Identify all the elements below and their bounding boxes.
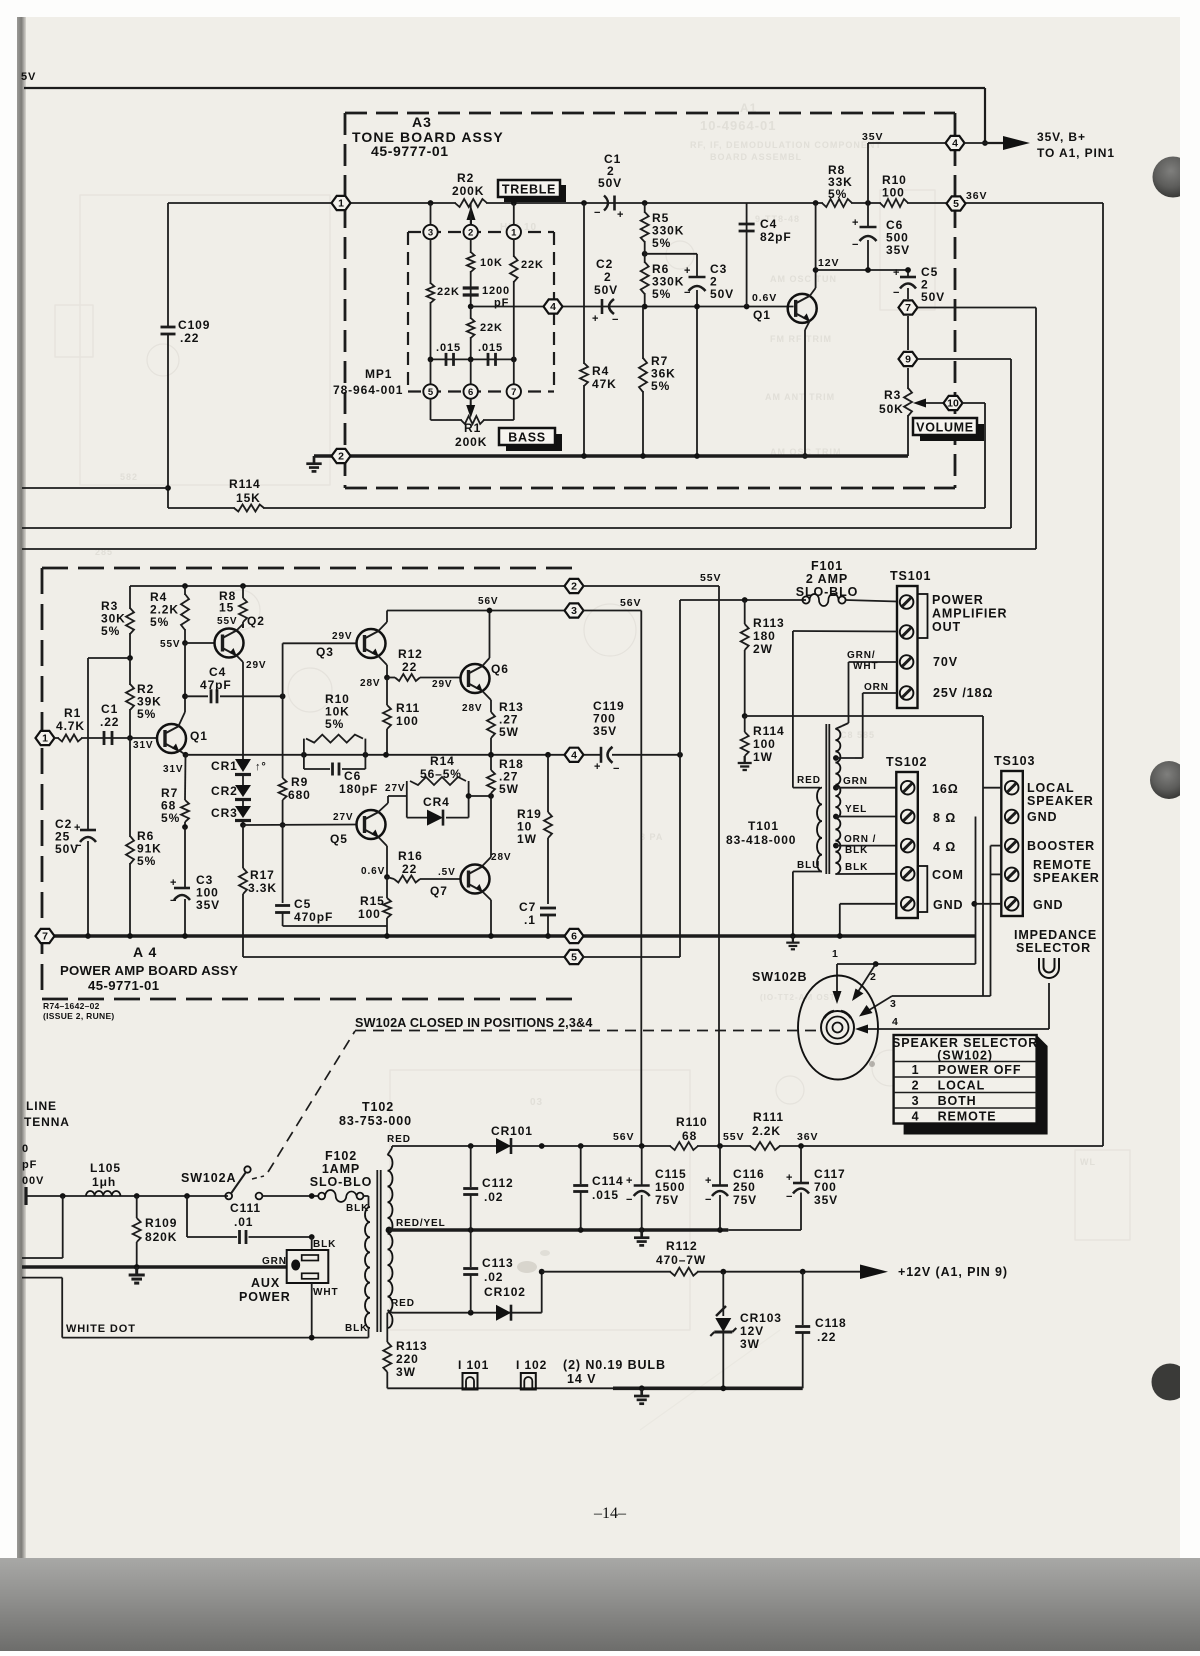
node dot ct c116 [717,1227,723,1233]
transformer T102 primary [365,1207,370,1328]
svg-text:C8 585: C8 585 [840,730,875,740]
svg-text:TS102: TS102 [886,755,927,769]
svg-text:1: 1 [912,1063,920,1077]
resistor R19 10 [547,755,549,812]
svg-text:BOARD ASSEMBL: BOARD ASSEMBL [710,152,802,162]
svg-text:5W: 5W [499,782,519,796]
svg-text:CR2: CR2 [211,784,238,798]
svg-text:55V: 55V [723,1131,744,1143]
wire tone ground heavy [314,454,908,458]
svg-text:C109: C109 [178,318,210,332]
transistor Q1 tone [788,294,817,323]
node dot rail c112 [468,1143,474,1149]
node dot R4 top tone [581,200,587,206]
wire Q1 emitter [805,321,810,330]
svg-text:5: 5 [571,952,577,964]
wire B+ right drop [984,88,986,143]
svg-text:BLK: BLK [345,1323,368,1334]
svg-text:200K: 200K [452,184,484,198]
svg-text:0.6V: 0.6V [361,866,385,877]
svg-text:C1: C1 [101,702,118,716]
svg-text:5%: 5% [150,615,169,629]
svg-text:2.2K: 2.2K [752,1124,781,1138]
svg-text:(SW102): (SW102) [937,1049,993,1063]
wire ts102 gnd drop [840,903,896,905]
svg-text:12V: 12V [740,1324,764,1338]
svg-text:(IO-TT2-AM OST: (IO-TT2-AM OST [760,993,836,1002]
svg-text:83-753-000: 83-753-000 [339,1114,412,1128]
svg-text:BLU: BLU [797,860,820,871]
node dot rail post cr101 [539,1143,545,1149]
svg-text:R4: R4 [592,364,609,378]
svg-text:SPEAKER: SPEAKER [1027,794,1094,808]
wire Q1pa emitter [179,750,186,755]
wire hex4-arrow [964,142,985,144]
svg-text:70V: 70V [933,655,958,669]
svg-text:22: 22 [402,862,417,876]
svg-text:56–5%: 56–5% [420,767,462,781]
wire mp1 col1 [513,203,515,232]
svg-text:.02: .02 [484,1190,503,1204]
svg-text:470–7W: 470–7W [656,1253,706,1267]
capacitor C115 [641,1146,643,1185]
wire sw2 diagonal [856,964,876,995]
resistor R16 22 [395,877,419,881]
wire to left edge y488 [22,487,168,489]
svg-text:22K: 22K [480,322,503,334]
svg-text:1200: 1200 [482,285,510,297]
terminal strip TS103 box [1001,771,1023,916]
svg-text:↑°: ↑° [255,761,267,773]
svg-text:AM ANT TRIM: AM ANT TRIM [765,392,835,402]
svg-text:C118: C118 [815,1316,847,1330]
speaker selector box [894,1035,1037,1124]
svg-text:YEL: YEL [845,804,867,815]
speaker selector rows [894,1061,1037,1063]
svg-text:55V: 55V [217,616,238,627]
svg-text:+: + [594,761,601,773]
svg-text:RED/YEL: RED/YEL [396,1218,446,1229]
node dot c111 right [309,1234,315,1240]
resistor R12 22 [387,677,395,679]
svg-text:4: 4 [892,1016,899,1028]
node dot rail r13 [488,752,494,758]
node dot gnd ac [134,1264,140,1270]
svg-text:56V: 56V [613,1131,634,1143]
svg-text:5%: 5% [828,187,847,201]
wire C2 link [88,657,130,659]
node dot 015 right [511,357,517,363]
svg-text:50V: 50V [598,176,622,190]
resistor 22K col2 lower [469,319,473,337]
node dot c111 top [309,1193,315,1199]
svg-text:.22: .22 [100,715,119,729]
node hex 9 tone [899,352,918,366]
svg-text:R111: R111 [753,1110,784,1124]
A4 board dashed border [42,567,574,570]
wire 35V drop [867,143,869,203]
wire T101 primary bottom [793,871,822,873]
wire col1 to pin7 [513,359,515,384]
wire hex4 from mp1 [471,306,794,308]
svg-text:.02: .02 [484,1270,503,1284]
svg-text:1: 1 [511,227,517,238]
wire hex10 right [962,402,985,404]
svg-text:27V: 27V [385,783,406,794]
svg-text:68: 68 [682,1129,697,1143]
node hex 4 top [946,136,965,150]
wire cr102 up [541,1272,543,1313]
node dot rail r11 [383,752,389,758]
wire Q5 emitter [378,837,387,846]
capacitor C4 47pF [185,695,208,697]
svg-text:R112: R112 [666,1239,698,1253]
svg-text:28V: 28V [491,852,512,863]
wire x1103 vertical [1102,203,1104,1146]
svg-text:28V: 28V [462,703,483,714]
TS101 bracket [918,594,928,638]
capacitor C1 tone [604,196,608,211]
pin circle 3 [423,225,437,239]
svg-text:REMOTE: REMOTE [938,1110,997,1124]
wire r113 junction right [745,715,983,717]
node dot r113 bottom [742,713,748,719]
fuse F102 [318,1193,325,1200]
diode CR4 branch [406,796,408,818]
svg-text:35V: 35V [814,1193,838,1207]
svg-text:R114: R114 [229,477,261,491]
svg-text:CR1: CR1 [211,759,238,773]
svg-text:82pF: 82pF [760,230,792,244]
node dot c118 top [800,1269,806,1275]
svg-text:5%: 5% [137,707,156,721]
svg-text:Q3: Q3 [316,645,334,659]
svg-text:8 PA: 8 PA [640,832,663,842]
node dot C1 right [642,200,648,206]
svg-text:+: + [893,267,900,279]
node dot cr103 top [720,1269,726,1275]
wire col2 to pin6 [470,359,472,384]
svg-text:3W: 3W [740,1337,760,1351]
svg-text:5%: 5% [101,624,120,638]
svg-text:4.7K: 4.7K [56,719,85,733]
node dot R4 top [182,583,188,589]
svg-text:Q2: Q2 [247,614,265,628]
svg-text:WHT: WHT [313,1287,338,1298]
svg-text:ORN: ORN [864,682,889,693]
node dot R2 left [428,200,434,206]
svg-text:C116: C116 [733,1167,765,1181]
node dot rail 680 [677,752,683,758]
resistor R113 220 [386,1313,388,1342]
svg-text:–14–: –14– [593,1505,627,1522]
svg-text:R15: R15 [360,894,385,908]
node dot gnd r6 [127,933,133,939]
svg-text:SELECTOR: SELECTOR [1016,941,1091,955]
svg-text:1AMP: 1AMP [322,1162,360,1176]
svg-text:LOCAL: LOCAL [1027,781,1075,795]
node dot ts103gnd stub [971,901,977,907]
svg-text:WL: WL [1080,1157,1096,1167]
svg-text:50V: 50V [594,283,618,297]
svg-text:180: 180 [753,629,776,643]
wire sw3 diagonal [866,996,892,1012]
wire amp out riser [679,600,681,957]
wire col1 22K [513,239,515,359]
capacitor C119 700 [600,747,603,763]
svg-text:C4: C4 [760,217,777,231]
svg-text:1W: 1W [753,750,773,764]
svg-text:5V: 5V [21,71,36,83]
wire t102 prim bottom [368,1328,370,1338]
svg-text:BASS: BASS [508,431,546,445]
svg-text:−: − [705,1194,712,1206]
impedance selector fork [1039,958,1059,978]
svg-text:FM RF TRIM: FM RF TRIM [770,334,832,344]
svg-text:BLK: BLK [313,1239,336,1250]
svg-text:TS101: TS101 [890,569,931,583]
lamp I102 [521,1373,536,1390]
resistor R2 39K pa [129,658,131,738]
svg-text:50V: 50V [921,290,945,304]
svg-text:GND: GND [1027,810,1057,824]
svg-text:78-964-001: 78-964-001 [333,383,403,397]
svg-text:29V: 29V [332,631,353,642]
node hex 4 tone [544,299,563,313]
svg-text:7: 7 [905,302,911,314]
svg-text:2 AMP: 2 AMP [806,572,848,586]
svg-text:2: 2 [912,1079,920,1093]
switch SW102B body [798,976,878,1080]
transistor Q5 [357,810,386,839]
wire hex10 drop [984,403,986,508]
resistor R7 68 pa [184,755,187,800]
resistor R11 100 [386,678,388,706]
node dot bulbrail gnd [639,1385,645,1391]
wire amp out to fuse [680,599,806,601]
wire C109 branch vertical lower [167,334,169,508]
svg-text:16Ω: 16Ω [932,782,959,796]
TS103 screw booster [1005,839,1019,853]
svg-text:6: 6 [571,931,577,943]
wire .015 row [431,358,514,360]
capacitor C3 pa [184,827,186,888]
node dot gnd c3 [182,933,188,939]
punch hole bottom [1152,1364,1189,1401]
pin circle 6 [464,384,478,398]
node dot Q1 base pa [127,735,133,741]
wire B+ top horizontal [24,87,985,89]
wire antenna rail [26,1195,228,1197]
svg-text:GND: GND [933,898,963,912]
svg-text:180pF: 180pF [339,782,378,796]
node hex 5 tone [947,196,966,210]
svg-text:22: 22 [402,660,417,674]
wire T101 primary top [793,630,897,633]
wire bulb rail heavy [613,1387,803,1391]
resistor R4 2.2K pa [184,586,186,643]
svg-text:Q5: Q5 [330,832,348,846]
svg-text:4: 4 [912,1110,920,1124]
wire yel tap [836,816,896,818]
svg-text:14 V: 14 V [567,1372,596,1386]
wire Q2 emitter [237,656,244,663]
resistor R111 2.2K [751,1144,779,1148]
svg-text:3W: 3W [396,1365,416,1379]
node dot ant2 [134,1193,140,1199]
svg-text:BLK: BLK [845,862,868,873]
svg-text:−: − [786,1191,793,1203]
svg-text:2: 2 [468,227,473,238]
svg-text:35V: 35V [196,898,220,912]
svg-text:CR101: CR101 [491,1124,533,1138]
svg-text:35V: 35V [862,131,883,143]
svg-text:10-4964-01: 10-4964-01 [700,118,777,133]
svg-text:2W: 2W [753,642,773,656]
svg-text:220: 220 [396,1352,419,1366]
svg-text:BOOSTER: BOOSTER [1027,839,1095,853]
pot R2 200K treble [456,201,486,205]
resistor R7 36K tone [642,307,644,457]
ground tone left [313,456,316,464]
ground t101 [792,936,794,943]
resistor R8 15 pa [242,586,244,598]
wire Q7 emitter [482,892,491,901]
svg-text:3: 3 [428,227,433,238]
svg-text:T101: T101 [748,819,779,833]
node dot ant1 [60,1193,66,1199]
svg-text:−: − [626,1194,633,1206]
TS103 screw gnd2 [1005,897,1019,911]
capacitor C113 [470,1230,472,1267]
wire left stub b [22,1277,62,1279]
svg-text:56V: 56V [478,596,499,607]
svg-text:F102: F102 [325,1149,357,1163]
svg-text:55V: 55V [700,572,721,584]
pin circle 2 [464,225,478,239]
svg-text:.015: .015 [478,342,503,354]
transistor Q7 [461,865,490,894]
svg-text:C114: C114 [592,1174,624,1188]
svg-text:2: 2 [870,971,877,983]
resistor R5 330K [644,203,646,254]
svg-text:CR3: CR3 [211,806,238,820]
svg-text:COM: COM [932,868,964,882]
pin circle 5 [423,384,437,398]
svg-text:POWER AMP BOARD ASSY: POWER AMP BOARD ASSY [60,963,238,978]
wire left stub a [22,1257,63,1259]
svg-text:−: − [612,314,619,326]
svg-text:R17: R17 [250,868,275,882]
svg-text:ORN /: ORN / [844,834,876,845]
svg-text:31V: 31V [133,740,154,751]
ground ac [135,1267,138,1275]
node hex 6 pa [565,929,584,943]
scanner bed below page [0,1558,1200,1651]
svg-text:50V: 50V [55,842,79,856]
svg-text:7: 7 [511,387,516,398]
svg-text:36V: 36V [966,190,987,202]
svg-text:−: − [684,287,691,299]
svg-text:OUT: OUT [932,620,961,634]
capacitor C5 470pF [282,825,284,903]
resistor 22K col1 [512,257,516,281]
svg-text:2: 2 [571,581,577,593]
svg-text:100: 100 [882,186,905,200]
svg-text:5%: 5% [651,379,670,393]
node dot rail c117 [798,1143,804,1149]
wire Q2 collector [237,624,244,631]
svg-text:−: − [594,207,601,219]
svg-text:10K: 10K [480,257,503,269]
svg-text:POWER OFF: POWER OFF [938,1063,1022,1077]
resistor 22K col3 [429,284,433,302]
svg-text:WHT: WHT [853,661,878,672]
node dot grn tap [833,785,839,791]
wire R14 to R18 [469,795,491,797]
TS102 screw 16 [901,781,915,795]
svg-text:+: + [705,1175,712,1187]
svg-text:−: − [170,895,177,907]
node dot R7 gnd [640,453,646,459]
node dot hex4 wire [468,304,474,310]
svg-text:3: 3 [912,1094,920,1108]
wire Q3 base run [283,642,357,644]
node hex 1 pa [36,731,55,745]
svg-text:36V: 36V [797,1131,818,1143]
wire col3 inner [430,239,432,359]
svg-text:5%: 5% [652,287,671,301]
wire grn tap [836,787,896,789]
svg-text:A 4: A 4 [133,944,157,960]
node hex 5 pa [565,950,584,964]
node dot rail r10 right [363,752,369,758]
svg-text:.5V: .5V [438,867,456,878]
node dot red bot c113 [468,1310,474,1316]
node dot C4/35V [865,200,871,206]
svg-text:83-418-000: 83-418-000 [726,833,796,847]
wire C109 branch vertical upper [167,203,169,327]
resistor R10 100 [881,201,907,205]
svg-text:R2: R2 [457,171,474,185]
resistor R17 3.3K [242,825,244,868]
svg-text:03: 03 [530,1097,543,1108]
svg-text:56V: 56V [620,597,641,609]
wire hex9 right [917,358,1011,360]
svg-text:TO A1, PIN1: TO A1, PIN1 [1037,146,1115,160]
svg-text:1: 1 [42,733,48,745]
node hex 7 pa [36,929,55,943]
wire hex5 rail [243,956,566,958]
svg-text:28V: 28V [360,678,381,689]
svg-text:C112: C112 [482,1176,514,1190]
svg-text:50V: 50V [710,287,734,301]
node dot R2 right [511,200,517,206]
transistor Q2 [215,629,244,658]
node dot R3 bottom [127,655,133,661]
resistor R13 .27 [489,713,493,737]
svg-text:R109: R109 [145,1216,177,1230]
svg-text:200K: 200K [455,435,487,449]
svg-text:WHITE DOT: WHITE DOT [66,1323,136,1335]
svg-text:2: 2 [604,270,612,284]
wire sw1 drop [836,964,838,997]
TS101 screw 3 [900,655,914,669]
svg-text:A3: A3 [412,114,432,130]
TS103 screw remote [1005,868,1019,882]
node dot t101 gnd [790,933,796,939]
wire hex7 drop [1035,308,1037,550]
